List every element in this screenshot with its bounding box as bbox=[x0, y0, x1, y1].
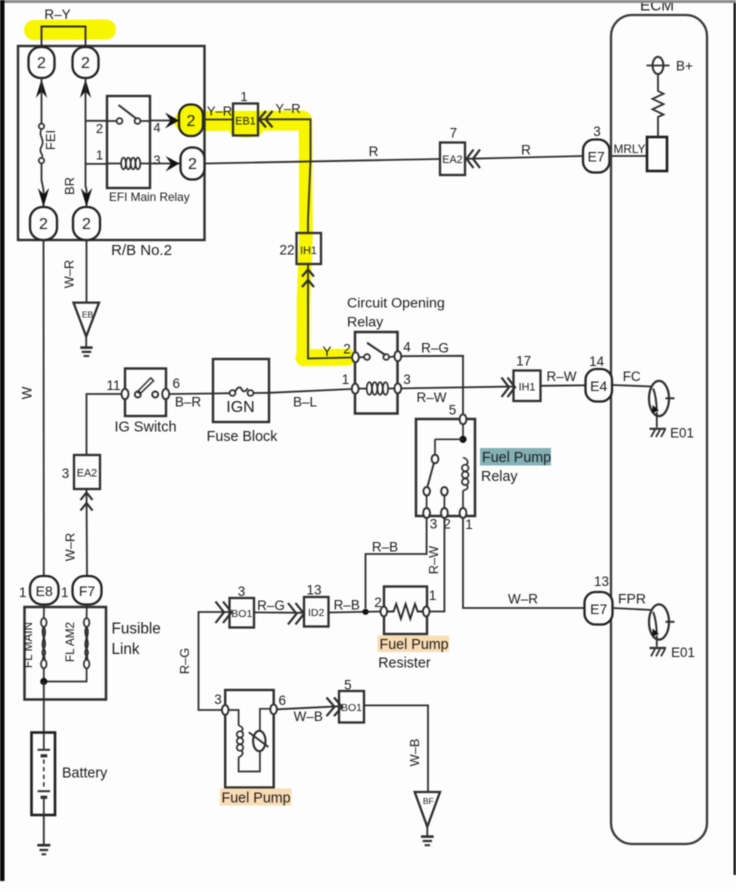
svg-text:R–B: R–B bbox=[372, 540, 398, 555]
pin 2 oval (FPRelay bottom) bbox=[441, 508, 448, 518]
svg-text:E8: E8 bbox=[36, 583, 53, 599]
svg-text:Link: Link bbox=[112, 641, 140, 658]
switch inside circuit opening relay bbox=[359, 343, 395, 360]
label W-B bbox=[294, 709, 323, 724]
svg-text:2: 2 bbox=[96, 121, 103, 136]
wire relay pin 2 to BR vertical bbox=[86, 120, 108, 122]
battery cells bbox=[38, 733, 50, 816]
label E01 (FPR) bbox=[671, 645, 695, 660]
pin 5 oval (FPRelay) bbox=[460, 414, 467, 424]
svg-text:Fusible: Fusible bbox=[112, 621, 161, 638]
label R-G (fuel pump row) bbox=[257, 598, 285, 613]
pin 3 oval (COR) bbox=[394, 383, 401, 393]
wire FEI upper segment bbox=[41, 78, 43, 124]
wire R row from connector 2 to EA2 bbox=[205, 159, 441, 164]
svg-text:R–G: R–G bbox=[257, 598, 285, 613]
svg-text:FL AM2: FL AM2 bbox=[63, 622, 77, 662]
svg-text:W–R: W–R bbox=[508, 592, 538, 607]
wire from FEI to bottom connector 2 bbox=[42, 163, 44, 207]
svg-text:7: 7 bbox=[450, 126, 458, 141]
wire R-W from COR pin 3 to IH1 bbox=[401, 387, 513, 389]
IG Switch box bbox=[125, 369, 166, 417]
svg-text:17: 17 bbox=[516, 354, 531, 369]
ground symbol below BF bbox=[421, 827, 434, 845]
svg-text:R–W: R–W bbox=[417, 390, 447, 405]
chevrons under EA2 bbox=[81, 493, 93, 511]
FPR output transistor symbol bbox=[649, 604, 675, 639]
Fusible Link box bbox=[25, 607, 107, 700]
connector EB1 bbox=[233, 104, 258, 136]
label ECM bbox=[640, 0, 674, 15]
svg-text:Relay: Relay bbox=[481, 469, 518, 485]
label FL MAIN bbox=[21, 622, 35, 668]
chevrons at EB1 bbox=[259, 111, 273, 127]
label EFI Main Relay bbox=[109, 190, 190, 204]
wire from pin 6 to fuse block bbox=[169, 393, 213, 396]
svg-text:EB: EB bbox=[82, 310, 94, 320]
chevrons before ID2 bbox=[288, 603, 304, 624]
svg-text:3: 3 bbox=[430, 517, 438, 532]
svg-text:Resister: Resister bbox=[378, 655, 431, 671]
wire Y-R from EB1 down to IH1 bbox=[258, 119, 311, 233]
junction node (fusible links) bbox=[40, 678, 47, 685]
svg-text:2: 2 bbox=[82, 216, 91, 233]
svg-text:FPR: FPR bbox=[618, 590, 646, 606]
label R-W (at E4) bbox=[547, 369, 577, 384]
svg-text:1: 1 bbox=[240, 89, 247, 104]
svg-text:IH1: IH1 bbox=[300, 245, 317, 257]
screenshot artifact: left black bar bbox=[0, 0, 5, 881]
label FPR bbox=[618, 590, 646, 606]
Battery box bbox=[32, 733, 56, 816]
svg-text:5: 5 bbox=[344, 678, 352, 693]
peach highlight Fuel Pump Resister bbox=[378, 636, 450, 653]
label FL AM2 bbox=[63, 622, 77, 662]
FC output transistor symbol bbox=[649, 381, 675, 416]
resistor element R1 zigzag bbox=[387, 604, 423, 619]
screenshot artifact: top gray strip bbox=[5, 0, 736, 3]
R/B No.2 box bbox=[18, 46, 205, 240]
wire relay pin 1 to BR vertical bbox=[86, 163, 108, 165]
label W-B (vertical) bbox=[407, 739, 422, 767]
chevrons before BO1 pin 5 bbox=[327, 698, 343, 717]
pin 3 label above E7 bbox=[593, 124, 601, 139]
junction node (R-B) bbox=[362, 609, 368, 615]
coil inside EFI Main Relay bbox=[107, 158, 150, 170]
svg-text:Fuel Pump: Fuel Pump bbox=[380, 637, 449, 653]
svg-text:B–R: B–R bbox=[175, 395, 202, 410]
chevrons under IH1 bbox=[302, 270, 314, 288]
chevrons before BO1 pin 3 bbox=[216, 602, 232, 624]
label R-W (row 2) bbox=[417, 390, 447, 405]
svg-text:E7: E7 bbox=[590, 601, 607, 617]
fuse IGN inside fuse block bbox=[213, 387, 269, 396]
pin 3 label at EA2 bbox=[62, 466, 70, 481]
wire BR vertical (top connector 2 to relay pins and bottom connector 2) bbox=[86, 78, 87, 207]
highlighter yellow trace over R-Y bridge bbox=[34, 20, 106, 41]
label Y-R (left of EB1) bbox=[207, 104, 232, 119]
svg-text:1: 1 bbox=[465, 517, 473, 532]
svg-text:R–Y: R–Y bbox=[44, 7, 70, 22]
pin 1 label at F7 bbox=[61, 585, 69, 600]
svg-text:2: 2 bbox=[188, 156, 197, 173]
svg-text:Y: Y bbox=[322, 344, 331, 359]
pin 6 label (IG Switch) bbox=[173, 376, 181, 391]
pin 1 label (EFI Main Relay) bbox=[96, 148, 103, 163]
label Fuel Pump Resister bbox=[378, 637, 448, 672]
svg-text:R: R bbox=[521, 143, 531, 158]
EFI Main Relay box bbox=[107, 96, 150, 188]
wire W-R from EA2 down to F7 bbox=[86, 489, 89, 576]
svg-text:EFI Main Relay: EFI Main Relay bbox=[109, 190, 190, 204]
pin 2 oval (COR) bbox=[352, 352, 359, 362]
pin 6 oval (fuel pump) bbox=[270, 704, 277, 714]
label E01 (FC) bbox=[670, 426, 694, 441]
label IGN bbox=[226, 399, 254, 416]
ECM box bbox=[611, 15, 707, 844]
wire R-G vertical to fuel pump bbox=[199, 612, 230, 710]
label W bbox=[20, 386, 35, 399]
svg-text:2: 2 bbox=[374, 595, 382, 610]
wire relay pin 3 to connector 2 bbox=[150, 163, 181, 165]
label W-R (upper) bbox=[62, 260, 77, 288]
svg-text:1: 1 bbox=[61, 585, 69, 600]
connector EA2 (pin 7) bbox=[440, 143, 465, 176]
pin 14 label bbox=[589, 354, 605, 369]
svg-text:Circuit Opening: Circuit Opening bbox=[347, 296, 445, 312]
svg-text:Battery: Battery bbox=[62, 765, 108, 781]
arrow right into yellow connector 2 bbox=[165, 113, 179, 129]
svg-text:E7: E7 bbox=[588, 149, 605, 165]
svg-text:R: R bbox=[369, 144, 379, 159]
pin 2 label (EFI Main Relay) bbox=[96, 121, 103, 136]
Fuel Pump box bbox=[225, 690, 274, 788]
pin 1 oval (resistor) bbox=[423, 607, 430, 617]
connector 2 (yellow highlighted, pin 4 output) bbox=[179, 105, 203, 137]
ground symbol below EB bbox=[80, 337, 92, 357]
highlighter yellow trace over Y-R wire through EB1 bbox=[184, 121, 302, 138]
svg-text:1: 1 bbox=[19, 585, 27, 600]
wire R-Y bridge between connectors 2 and 2 bbox=[42, 27, 86, 49]
wire and junction inside fuel pump relay bbox=[435, 424, 467, 455]
wire from pin 11 left and down to EA2 bbox=[87, 394, 122, 455]
svg-text:6: 6 bbox=[173, 376, 181, 391]
connector ID2 (pin 13) bbox=[304, 597, 329, 627]
fusible link FL MAIN bbox=[41, 605, 47, 682]
pin 3 label (EFI Main Relay) bbox=[153, 153, 160, 168]
svg-text:13: 13 bbox=[306, 583, 321, 598]
svg-text:W: W bbox=[20, 386, 35, 399]
chevrons before IH1 pin 17 bbox=[502, 378, 516, 398]
pin 13 label above ID2 bbox=[306, 583, 321, 598]
label R-G bbox=[421, 341, 449, 356]
svg-text:Fuse Block: Fuse Block bbox=[207, 429, 279, 445]
wire FC from E4 to transistor bbox=[612, 385, 653, 387]
wire from bottom connector 2 down to EB triangle bbox=[86, 240, 88, 303]
svg-text:1: 1 bbox=[96, 148, 103, 163]
unused centre contact and pin 2 lead (FPRelay) bbox=[441, 487, 448, 509]
svg-text:B+: B+ bbox=[676, 59, 693, 74]
arrow right into lower connector 2 bbox=[166, 156, 180, 172]
svg-text:R/B No.2: R/B No.2 bbox=[111, 242, 172, 259]
wire relay pin 4 to connector 2 bbox=[150, 120, 179, 122]
pump coil inside fuel pump bbox=[228, 710, 260, 772]
svg-text:11: 11 bbox=[106, 378, 120, 393]
label IG Switch bbox=[114, 420, 176, 436]
switch contacts inside IG Switch bbox=[135, 378, 158, 398]
MRLY driver box inside ECM bbox=[647, 137, 667, 171]
svg-text:FC: FC bbox=[623, 369, 641, 384]
coil inside fuel pump relay bbox=[462, 458, 469, 510]
label R-B (vertical jog) bbox=[372, 540, 398, 555]
svg-text:R–G: R–G bbox=[421, 341, 449, 356]
wire R from EA2 to E7 bbox=[467, 156, 584, 159]
svg-text:IG Switch: IG Switch bbox=[114, 420, 176, 436]
svg-text:BO1: BO1 bbox=[231, 608, 252, 620]
connector 2 (bottom second, R/B No.2) bbox=[73, 207, 100, 240]
pin 11 label bbox=[106, 378, 120, 393]
svg-text:F7: F7 bbox=[79, 583, 96, 599]
svg-text:R–W: R–W bbox=[426, 545, 441, 574]
label Fuse Block bbox=[207, 429, 279, 445]
pin 1 label (resistor) bbox=[429, 588, 437, 603]
ground E01 (FC) bbox=[650, 412, 667, 437]
pin 1 oval (FPRelay bottom) bbox=[460, 508, 467, 518]
label R (right) bbox=[521, 143, 531, 158]
label Circuit Opening Relay bbox=[347, 296, 445, 331]
connector 2 (top second, R/B No.2) bbox=[73, 47, 99, 78]
svg-text:22: 22 bbox=[279, 243, 294, 258]
connector F7 (pin 1) bbox=[73, 576, 102, 605]
svg-text:4: 4 bbox=[403, 340, 411, 355]
B+ terminal symbol bbox=[647, 57, 670, 74]
svg-text:W–B: W–B bbox=[407, 739, 422, 767]
wire E7 to MRLY box bbox=[610, 155, 648, 157]
label Y-R (right of EB1) bbox=[275, 101, 300, 116]
svg-text:14: 14 bbox=[589, 354, 605, 369]
wire R-G from COR pin 4 down to fuel pump relay pin 5 bbox=[401, 356, 463, 415]
pump motor inside fuel pump bbox=[249, 709, 270, 751]
connector IH1 (pin 17) bbox=[514, 371, 541, 402]
Fuse Block box bbox=[213, 359, 269, 422]
arrow up into top connector 2 (left) bbox=[36, 79, 47, 98]
Fuel Pump Relay box bbox=[416, 419, 475, 516]
wire R-W from FPRelay pin 2 down to resistor output bbox=[430, 518, 445, 612]
svg-text:R–B: R–B bbox=[334, 598, 360, 613]
connector E4 (pin 14, FC) bbox=[586, 369, 613, 402]
connector BO1 (pin 3) bbox=[230, 598, 255, 628]
ground triangle EB bbox=[74, 303, 100, 337]
pin 4 oval (COR) bbox=[394, 351, 401, 361]
label Fuel Pump Relay bbox=[481, 450, 551, 485]
svg-text:Y–R: Y–R bbox=[275, 101, 300, 116]
label R-W (vertical) bbox=[426, 545, 441, 574]
svg-text:E4: E4 bbox=[590, 378, 607, 394]
teal highlight Fuel Pump bbox=[480, 448, 551, 466]
svg-text:Fuel Pump: Fuel Pump bbox=[482, 450, 551, 466]
pin 11 oval (IG Switch) bbox=[122, 389, 129, 399]
wire W-R from FPRelay pin 1 to E7 FPR bbox=[463, 518, 585, 608]
pin 1 label above EB1 bbox=[240, 89, 247, 104]
label BR bbox=[62, 177, 77, 195]
svg-text:MRLY: MRLY bbox=[614, 142, 646, 156]
wire from IH1 down and right to circuit opening relay pin 2 bbox=[308, 264, 352, 359]
pin 6 label (fuel pump) bbox=[278, 693, 286, 708]
connector IH1 (pin 22) bbox=[297, 233, 322, 264]
label B-R bbox=[175, 395, 202, 410]
wire Y-R from connector 2 to EB1 bbox=[203, 119, 233, 121]
svg-text:3: 3 bbox=[403, 372, 411, 387]
peach highlight Fuel Pump bbox=[220, 789, 291, 806]
label B-L bbox=[293, 395, 318, 410]
pin 4 label (COR) bbox=[403, 340, 411, 355]
arrow down into bottom connector 2 (second) bbox=[81, 188, 92, 207]
wire battery to ground bbox=[43, 815, 45, 844]
connector 2 (bottom left, R/B No.2) bbox=[30, 207, 57, 240]
pin 2 oval (resistor) bbox=[381, 607, 388, 617]
svg-text:W–B: W–B bbox=[294, 709, 323, 724]
pin labels 3 2 1 (FPRelay) bbox=[430, 517, 473, 533]
label R-B (to resistor) bbox=[334, 598, 360, 613]
pin 3 oval (fuel pump) bbox=[222, 705, 229, 715]
svg-text:3: 3 bbox=[593, 124, 601, 139]
svg-text:BR: BR bbox=[62, 177, 77, 195]
connector EA2 (pin 3) bbox=[74, 455, 100, 489]
Circuit Opening Relay box bbox=[355, 332, 398, 414]
svg-text:R–G: R–G bbox=[177, 648, 192, 674]
svg-text:EA2: EA2 bbox=[77, 468, 97, 480]
pin 2 label (COR) bbox=[343, 342, 351, 357]
pin 3 label (fuel pump) bbox=[214, 692, 222, 707]
svg-text:2: 2 bbox=[39, 216, 48, 233]
pin 5 label above BO1 bbox=[344, 678, 352, 693]
svg-text:IH1: IH1 bbox=[519, 381, 536, 393]
svg-text:3: 3 bbox=[153, 153, 160, 168]
pin 17 label bbox=[516, 354, 531, 369]
svg-text:2: 2 bbox=[187, 113, 196, 130]
wire W from bottom connector 2 to E8 bbox=[43, 240, 45, 576]
label R-G (vertical) bbox=[177, 648, 192, 674]
connector E8 (pin 1) bbox=[30, 576, 59, 605]
label W-R (lower left) bbox=[63, 533, 78, 561]
svg-text:5: 5 bbox=[449, 403, 457, 418]
svg-text:1: 1 bbox=[342, 372, 350, 387]
svg-text:2: 2 bbox=[343, 342, 351, 357]
wire from junction to battery bbox=[43, 682, 45, 733]
svg-text:6: 6 bbox=[278, 693, 286, 708]
label R (left) bbox=[369, 144, 379, 159]
pin 1 oval (COR) bbox=[352, 384, 359, 394]
label Y bbox=[322, 344, 331, 359]
pin 3 label (COR) bbox=[403, 372, 411, 387]
wire B-L from fuse block to circuit opening relay pin 1 bbox=[269, 389, 352, 393]
svg-text:1: 1 bbox=[429, 588, 437, 603]
connector E7 (pin 3, MRLY) bbox=[583, 140, 610, 173]
svg-text:3: 3 bbox=[62, 466, 70, 481]
connector E7 (pin 13, FPR) bbox=[585, 592, 613, 625]
svg-text:2: 2 bbox=[37, 55, 46, 72]
svg-text:W–R: W–R bbox=[62, 260, 77, 288]
highlighter yellow trace down through IH1 to circuit opening relay pin 2 bbox=[303, 124, 347, 358]
svg-text:FL MAIN: FL MAIN bbox=[21, 622, 35, 668]
svg-text:ID2: ID2 bbox=[308, 607, 325, 619]
ground symbol (battery) bbox=[37, 845, 50, 854]
svg-text:3: 3 bbox=[238, 584, 246, 599]
label W-R (bottom row) bbox=[508, 592, 538, 607]
fusible link FL AM2 bbox=[44, 605, 90, 682]
label MRLY bbox=[614, 142, 646, 156]
svg-text:BF: BF bbox=[423, 796, 434, 806]
wire R-G from BO1 to ID2 bbox=[254, 611, 304, 613]
connector 2 (pin 3 output) bbox=[181, 148, 205, 180]
label Battery bbox=[62, 765, 108, 781]
screenshot artifact: right dark line bbox=[734, 0, 736, 875]
wire FPR to transistor bbox=[613, 608, 653, 610]
svg-text:FEI: FEI bbox=[43, 130, 58, 150]
connector FEI (inline, two rings and wavy link) bbox=[39, 124, 44, 164]
chevrons at EA2 bbox=[467, 150, 481, 169]
label R/B No.2 bbox=[111, 242, 172, 259]
Fuel Pump Resister box bbox=[384, 587, 427, 635]
pin 2 label (resistor) bbox=[374, 595, 382, 610]
wire R-B from ID2 to resistor bbox=[329, 612, 382, 613]
svg-text:2: 2 bbox=[81, 55, 90, 72]
pin 5 label bbox=[449, 403, 457, 418]
svg-text:BO1: BO1 bbox=[341, 702, 362, 714]
connector 2 (top left, R/B No.2) bbox=[29, 47, 55, 78]
svg-text:EB1: EB1 bbox=[235, 116, 255, 128]
connector BO1 (pin 5) bbox=[339, 691, 364, 723]
switch inside EFI Main Relay bbox=[107, 105, 150, 124]
label R-Y bbox=[44, 7, 70, 22]
pin 13 label bbox=[594, 574, 609, 589]
label FC bbox=[623, 369, 641, 384]
wire W-B from fuel pump pin 6 to BO1 bbox=[277, 706, 339, 709]
wire W-B from BO1 down to BF bbox=[364, 705, 428, 791]
pin 22 label bbox=[279, 243, 294, 258]
svg-text:IGN: IGN bbox=[226, 399, 254, 416]
ground triangle BF bbox=[415, 792, 440, 827]
svg-text:EA2: EA2 bbox=[442, 154, 462, 166]
label B+ bbox=[676, 59, 693, 74]
pin 6 oval (IG Switch) bbox=[162, 389, 169, 399]
wire R-B from FPRelay pin 3 down to junction bbox=[366, 518, 427, 609]
label FEI bbox=[43, 130, 58, 150]
svg-text:R–W: R–W bbox=[547, 369, 577, 384]
label Fuel Pump bbox=[222, 791, 291, 807]
svg-text:B–L: B–L bbox=[293, 395, 318, 410]
svg-text:Y–R: Y–R bbox=[207, 104, 232, 119]
pin 7 label above EA2 bbox=[450, 126, 458, 141]
pin 1 label (COR) bbox=[342, 372, 350, 387]
arrow down into bottom connector 2 (left) bbox=[38, 188, 49, 207]
pin 4 label (EFI Main Relay) bbox=[153, 120, 160, 135]
svg-text:W–R: W–R bbox=[63, 533, 78, 561]
pin 3 label above BO1 bbox=[238, 584, 246, 599]
svg-text:13: 13 bbox=[594, 574, 609, 589]
svg-text:4: 4 bbox=[153, 120, 160, 135]
pin 3 oval (FPRelay bottom) bbox=[423, 508, 430, 518]
pin 1 label at E8 bbox=[19, 585, 27, 600]
resistor from B+ to MRLY bbox=[653, 74, 664, 137]
svg-text:3: 3 bbox=[214, 692, 222, 707]
coil inside circuit opening relay bbox=[359, 382, 395, 395]
label Fusible Link bbox=[112, 621, 161, 659]
svg-text:Relay: Relay bbox=[347, 314, 384, 330]
wire R-W from IH1 to E4 bbox=[541, 384, 586, 387]
arrow up into top connector 2 (second) bbox=[80, 79, 91, 98]
svg-text:Fuel Pump: Fuel Pump bbox=[222, 791, 291, 807]
